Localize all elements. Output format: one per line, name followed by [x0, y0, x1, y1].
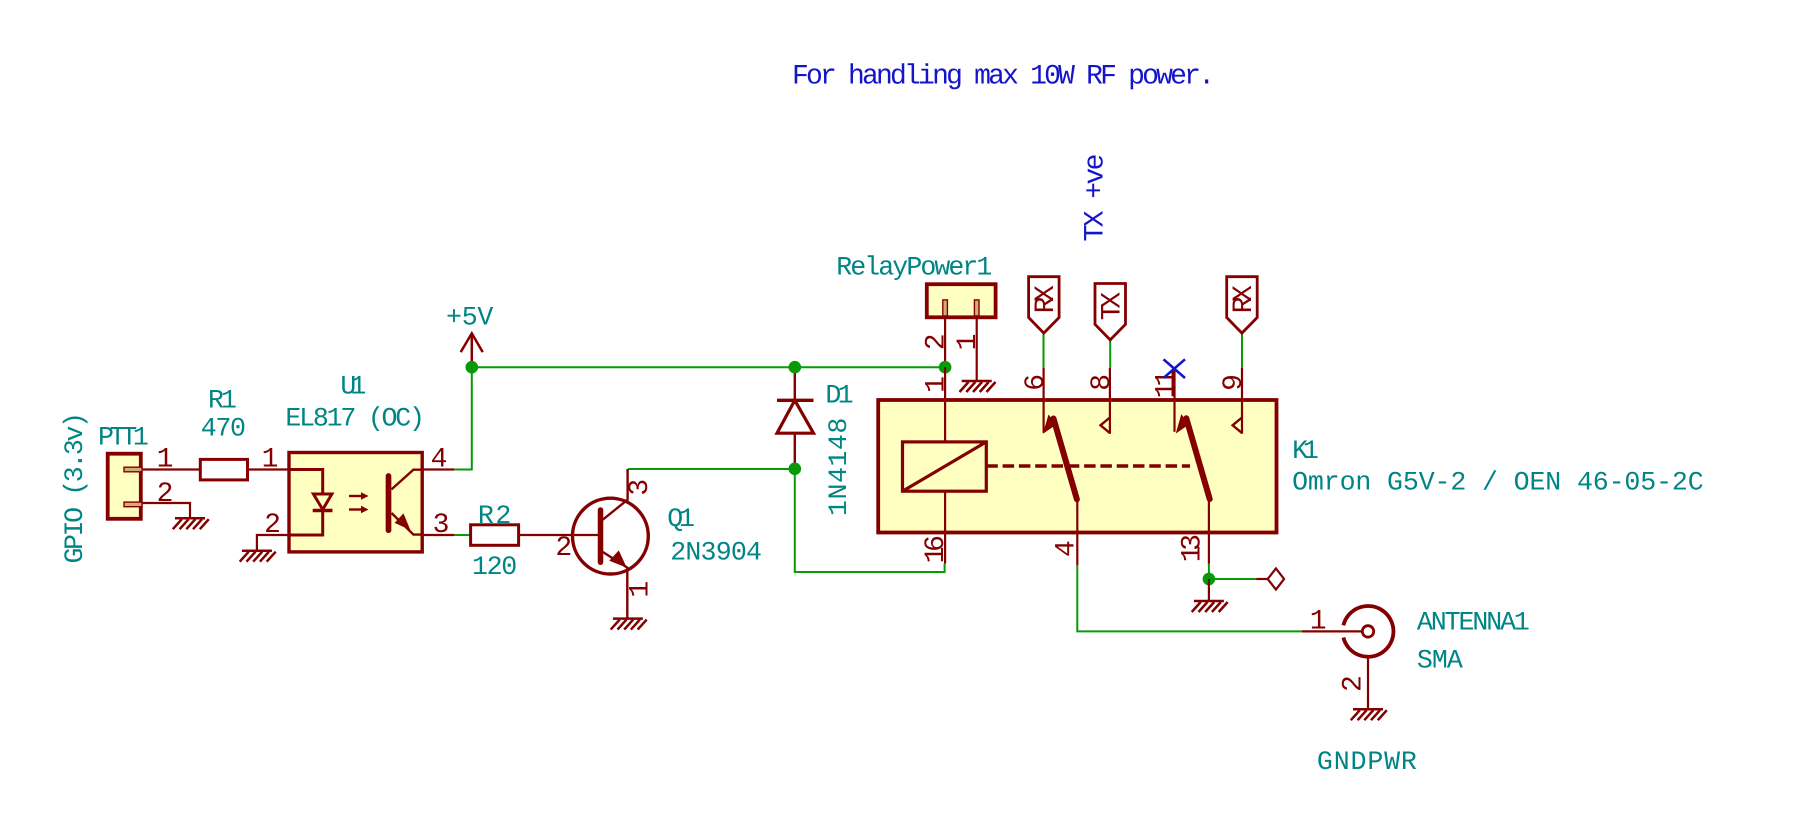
optocoupler U1 — [285, 371, 425, 552]
svg-text:2: 2 — [922, 333, 953, 350]
svg-text:GPIO (3.3v): GPIO (3.3v) — [60, 412, 90, 564]
LED inside U1 — [289, 470, 323, 494]
svg-text:2: 2 — [157, 479, 174, 510]
connector RelayPower1 — [836, 253, 995, 318]
transistor Q1 — [573, 469, 763, 618]
hierarchical label RX (pin6) — [1029, 277, 1062, 333]
wire D1 to relay pin16 — [795, 469, 945, 572]
pin U1-3 — [422, 534, 454, 536]
junction D1 top — [789, 361, 802, 374]
wire junction to diamond — [1209, 578, 1256, 580]
svg-text:1: 1 — [262, 445, 279, 476]
light arrows inside U1 — [349, 495, 362, 497]
diode D1 — [777, 368, 854, 517]
junction D1 bottom — [789, 463, 802, 476]
svg-text:2N3904: 2N3904 — [670, 538, 762, 568]
ground ANTENNA1 / GNDPWR — [1351, 709, 1387, 720]
ground Q1 emitter — [611, 619, 647, 630]
svg-text:EL817 (OC): EL817 (OC) — [285, 403, 425, 433]
svg-text:RelayPower1: RelayPower1 — [836, 253, 992, 283]
power +5V — [446, 302, 493, 367]
hierarchical label TX (pin8) — [1095, 284, 1129, 340]
pin PTT1-2 — [143, 503, 190, 518]
svg-text:4: 4 — [431, 445, 448, 476]
svg-text:6: 6 — [1021, 374, 1052, 391]
pin ANTENNA1-1 — [1302, 630, 1362, 632]
wire relay pin13 to junction — [1208, 564, 1210, 580]
svg-text:RX: RX — [1031, 285, 1062, 314]
svg-text:16: 16 — [921, 535, 952, 563]
wire R1 to U1 — [248, 468, 290, 470]
svg-text:120: 120 — [472, 552, 517, 582]
pin K1-11 contact — [1173, 368, 1175, 431]
svg-text:3: 3 — [433, 510, 450, 541]
pin K1-9 contact — [1241, 368, 1243, 434]
relay K1 — [878, 367, 1703, 565]
svg-text:D1: D1 — [825, 381, 853, 411]
ground U1 pin2 — [240, 551, 276, 562]
wire +5V bus horizontal — [472, 366, 945, 368]
svg-text:RX: RX — [1229, 285, 1260, 314]
junction RelayPower1 pin2 — [939, 361, 952, 374]
wire Q1 collector to D1 — [628, 468, 795, 470]
svg-text:9: 9 — [1219, 374, 1250, 391]
wire relay pin4 to antenna — [1077, 565, 1302, 631]
svg-text:13: 13 — [1178, 534, 1209, 562]
svg-text:TX: TX — [1098, 292, 1129, 321]
pin U1-4 — [422, 468, 454, 470]
svg-text:2: 2 — [555, 533, 572, 564]
svg-text:Omron G5V-2 / OEN 46-05-2C: Omron G5V-2 / OEN 46-05-2C — [1292, 468, 1704, 498]
svg-text:GNDPWR: GNDPWR — [1317, 747, 1417, 777]
wire RX2 to relay pin9 — [1241, 333, 1243, 368]
svg-text:1: 1 — [157, 445, 174, 476]
hierarchical label RX (pin9) — [1227, 277, 1260, 333]
svg-text:U1: U1 — [340, 371, 366, 401]
svg-text:TX +ve: TX +ve — [1081, 154, 1112, 242]
armature 2 — [1186, 418, 1209, 499]
svg-text:1N4148: 1N4148 — [824, 418, 854, 516]
coil K1 — [903, 442, 987, 491]
wire TX to relay pin8 — [1109, 339, 1111, 368]
svg-text:R2: R2 — [478, 501, 512, 531]
svg-text:4: 4 — [1052, 540, 1083, 557]
ground PTT1 — [173, 518, 209, 529]
pin K1-13 — [1208, 499, 1210, 564]
junction at +5V — [466, 361, 479, 374]
svg-text:1: 1 — [922, 376, 953, 393]
unconnected diamond pin13 — [1256, 578, 1268, 580]
svg-text:R1: R1 — [208, 386, 237, 416]
junction pin13 — [1203, 573, 1216, 586]
svg-text:1: 1 — [1310, 607, 1327, 638]
pin RelayPower1-2 — [944, 317, 946, 367]
wire +5V to U1 pin4 — [454, 367, 472, 469]
pin K1-8 contact — [1109, 368, 1111, 434]
wire RX1 to relay pin6 — [1043, 333, 1045, 368]
svg-text:3: 3 — [625, 479, 656, 496]
ground pin13 — [1192, 601, 1228, 612]
stub to ground pin13 — [1208, 579, 1210, 600]
no-connect X pin11 — [1164, 359, 1186, 378]
svg-text:1: 1 — [626, 581, 657, 598]
resistor R2 — [471, 501, 519, 582]
svg-text:PTT1: PTT1 — [98, 423, 149, 453]
svg-text:ANTENNA1: ANTENNA1 — [1417, 608, 1530, 638]
svg-text:For handling max 10W RF power.: For handling max 10W RF power. — [792, 62, 1215, 93]
ground RelayPower1 — [960, 381, 996, 392]
armature 1 — [1054, 419, 1077, 500]
svg-text:1: 1 — [953, 333, 984, 350]
pin ANTENNA1-2 — [1367, 657, 1369, 709]
svg-text:+5V: +5V — [446, 302, 493, 332]
pin U1-2 — [257, 535, 289, 550]
wire R2 to Q1 base — [519, 534, 600, 536]
svg-text:Q1: Q1 — [667, 504, 695, 534]
svg-text:2: 2 — [1339, 675, 1370, 692]
resistor R1 — [200, 386, 247, 480]
svg-text:2: 2 — [264, 510, 281, 541]
svg-text:470: 470 — [201, 413, 246, 443]
pin K1-4 — [1076, 499, 1078, 565]
svg-text:8: 8 — [1087, 374, 1118, 391]
svg-text:SMA: SMA — [1417, 646, 1463, 676]
pin K1-6 contact — [1042, 368, 1044, 433]
connector ANTENNA1 — [1343, 606, 1530, 676]
svg-text:K1: K1 — [1292, 436, 1319, 466]
wire U1 pin3 to R2 — [454, 534, 470, 536]
pin PTT1-1 — [143, 468, 200, 470]
phototransistor inside U1 — [386, 476, 392, 530]
connector PTT1 — [60, 412, 149, 564]
dashed coil link — [986, 464, 1190, 467]
pin RelayPower1-1 — [976, 317, 978, 380]
